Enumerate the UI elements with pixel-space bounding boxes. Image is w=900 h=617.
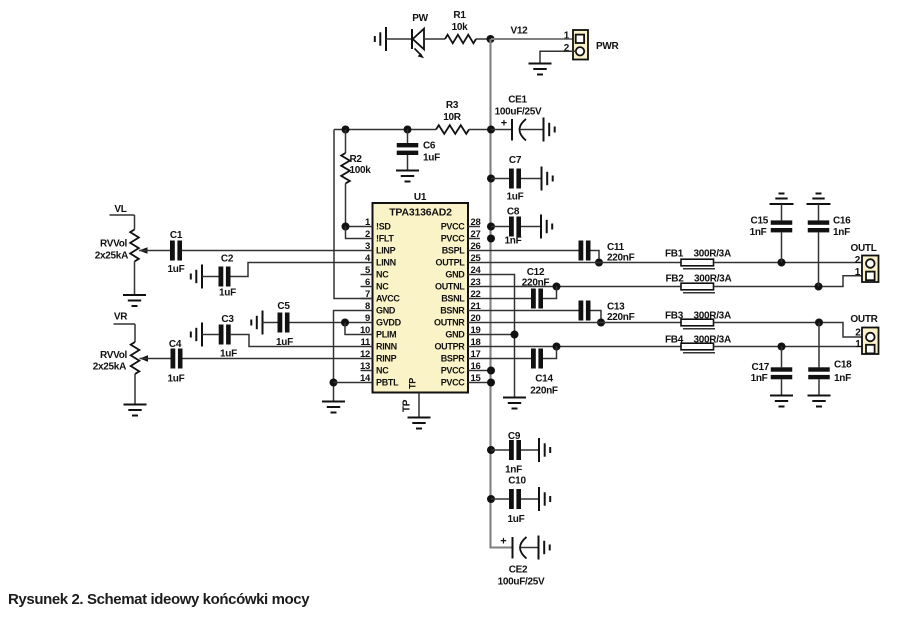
svg-text:1nF: 1nF (750, 227, 767, 238)
label R1 10k (452, 10, 469, 33)
svg-text:7: 7 (365, 289, 370, 300)
ground (C17) (770, 396, 793, 407)
LED PW (412, 29, 424, 59)
svg-text:1uF: 1uF (220, 349, 237, 360)
resistor R2 (341, 130, 350, 227)
node (487, 235, 495, 243)
svg-text:3: 3 (365, 241, 370, 252)
label C7 1uF (507, 155, 524, 203)
svg-text:12: 12 (360, 349, 370, 360)
svg-text:1nF: 1nF (833, 227, 850, 238)
svg-text:24: 24 (471, 265, 482, 276)
svg-text:FB1: FB1 (665, 249, 684, 260)
connector OUTR (862, 328, 879, 355)
svg-text:13: 13 (360, 361, 370, 372)
wire GND pin8 (334, 311, 361, 402)
wire OUTPL (480, 262, 681, 264)
svg-text:1: 1 (564, 31, 570, 42)
svg-text:2: 2 (855, 328, 861, 339)
svg-text:C4: C4 (169, 339, 182, 350)
capacitor C11 (579, 241, 600, 263)
node (487, 126, 495, 134)
svg-text:28: 28 (471, 217, 481, 228)
node (815, 283, 823, 291)
label C11 220nF (607, 242, 635, 264)
label CE1 100uF/25V (495, 95, 542, 118)
wire (140, 358, 171, 360)
svg-text:R3: R3 (446, 100, 459, 111)
node (330, 379, 338, 387)
svg-text:9: 9 (365, 313, 370, 324)
svg-text:CE2: CE2 (509, 565, 528, 576)
ferrite bead FB1 (681, 259, 715, 269)
svg-text:220nF: 220nF (530, 386, 558, 397)
svg-text:CE1: CE1 (508, 95, 527, 106)
svg-text:1nF: 1nF (505, 236, 522, 247)
svg-text:RVVol: RVVol (100, 239, 128, 250)
capacitor CE1 (491, 118, 544, 141)
svg-text:C15: C15 (751, 216, 769, 227)
svg-text:PBTL: PBTL (376, 378, 399, 388)
svg-text:C14: C14 (535, 374, 553, 385)
svg-text:BSNR: BSNR (440, 306, 465, 316)
svg-text:GND: GND (445, 270, 465, 280)
label OUTR (850, 314, 878, 350)
svg-text:C7: C7 (509, 155, 522, 166)
label TP (402, 399, 413, 412)
svg-text:1nF: 1nF (505, 465, 522, 476)
label FB1 300R/3A (665, 249, 731, 260)
label CE2 100uF/25V (498, 565, 545, 588)
capacitor CE2 (500, 536, 538, 559)
node (487, 446, 495, 454)
svg-text:10: 10 (360, 325, 370, 336)
label FB3 300R/3A (665, 311, 731, 322)
svg-text:BSNL: BSNL (441, 294, 465, 304)
svg-text:!FLT: !FLT (376, 234, 394, 244)
svg-text:OUTR: OUTR (850, 314, 878, 325)
svg-text:C5: C5 (277, 301, 290, 312)
label C6 1uF (423, 141, 440, 164)
wire PVCC pin15 (480, 382, 491, 384)
label RVVol 2x25kA (93, 350, 128, 373)
svg-text:BSPL: BSPL (442, 246, 466, 256)
svg-text:PW: PW (412, 13, 428, 24)
wire !FLT (346, 227, 361, 239)
svg-text:C8: C8 (507, 207, 520, 218)
svg-text:TP: TP (402, 399, 413, 412)
svg-text:V12: V12 (511, 26, 529, 37)
label C5 1uF (276, 301, 293, 348)
svg-text:18: 18 (471, 337, 481, 348)
capacitor C15 (771, 204, 793, 263)
svg-text:2x25kA: 2x25kA (95, 251, 128, 262)
node (511, 331, 519, 339)
svg-text:C16: C16 (833, 216, 851, 227)
ferrite bead FB3 (681, 319, 715, 329)
svg-text:23: 23 (471, 277, 481, 288)
node (487, 495, 495, 503)
pin TP wire (418, 393, 420, 418)
svg-text:2: 2 (564, 43, 570, 54)
ground (C10) (539, 487, 550, 511)
svg-text:OUTPL: OUTPL (436, 258, 466, 268)
wire LINP (182, 250, 361, 252)
svg-text:LINN: LINN (376, 258, 396, 268)
capacitor C13 (579, 301, 602, 323)
wire GND pin19 (480, 334, 515, 336)
svg-text:NC: NC (376, 282, 389, 292)
svg-text:20: 20 (471, 313, 481, 324)
potentiometer RVVol right (131, 324, 148, 405)
svg-text:FB2: FB2 (666, 274, 685, 285)
wire OUTPR out (480, 346, 681, 348)
label C14 220nF (530, 374, 558, 397)
wire PWR pin2 to ground (540, 51, 576, 63)
wire (139, 250, 170, 252)
svg-text:PLIM: PLIM (376, 330, 396, 340)
node (553, 283, 561, 291)
wire AVCC (334, 130, 373, 299)
label R3 10R (443, 100, 462, 123)
svg-text:PVCC: PVCC (441, 234, 466, 244)
label FB2 300R/3A (666, 274, 732, 285)
svg-text:C2: C2 (221, 254, 234, 265)
wire PVCC pin16 (480, 370, 491, 372)
svg-text:C10: C10 (508, 476, 526, 487)
svg-text:16: 16 (471, 361, 481, 372)
label RVVol 2x25kA (95, 239, 128, 262)
svg-text:GND: GND (376, 306, 396, 316)
ground (C7) (542, 167, 553, 191)
svg-text:1uF: 1uF (168, 374, 185, 385)
node (487, 367, 495, 375)
node (404, 126, 412, 134)
label C1 1uF (168, 230, 185, 275)
svg-text:PWR: PWR (596, 41, 620, 52)
ferrite bead FB4 (681, 343, 715, 353)
potentiometer RVVol left (130, 215, 147, 295)
capacitor C10 (491, 489, 539, 509)
svg-text:C6: C6 (423, 141, 436, 152)
wire RINP (183, 358, 361, 360)
svg-text:GND: GND (445, 330, 465, 340)
svg-text:10k: 10k (452, 22, 469, 33)
svg-text:VL: VL (114, 204, 126, 215)
svg-text:RINN: RINN (376, 342, 397, 352)
node (778, 259, 786, 267)
ground (pot VL) (123, 295, 146, 306)
ground (C3) (191, 323, 202, 347)
svg-text:TPA3136AD2: TPA3136AD2 (389, 207, 452, 219)
svg-text:OUTL: OUTL (850, 243, 876, 254)
ground (C18) (808, 396, 831, 407)
node VL (110, 204, 135, 215)
ground (C6) (396, 171, 419, 182)
capacitor C12 (531, 287, 557, 309)
svg-text:+: + (500, 536, 506, 548)
capacitor C18 (808, 323, 830, 396)
svg-text:1uF: 1uF (507, 192, 524, 203)
svg-text:1uF: 1uF (219, 288, 236, 299)
svg-text:C13: C13 (607, 302, 625, 313)
svg-text:NC: NC (376, 270, 389, 280)
capacitor C7 (491, 169, 542, 189)
svg-text:TP: TP (408, 378, 418, 389)
svg-text:15: 15 (471, 373, 482, 384)
wire (714, 323, 863, 338)
connector OUTL (862, 256, 879, 283)
svg-text:LINP: LINP (376, 246, 396, 256)
svg-text:25: 25 (471, 253, 482, 264)
svg-text:OUTNL: OUTNL (435, 282, 465, 292)
svg-text:22: 22 (471, 289, 481, 300)
svg-text:2x25kA: 2x25kA (93, 362, 126, 373)
svg-text:R1: R1 (453, 10, 466, 21)
label C16 1nF (833, 216, 851, 239)
svg-text:PVCC: PVCC (441, 366, 466, 376)
ground (C9) (539, 438, 550, 462)
label C17 1nF (751, 362, 770, 384)
svg-text:C3: C3 (221, 314, 234, 325)
wire BSNR (480, 310, 579, 312)
wire (714, 276, 867, 287)
wire (424, 38, 445, 40)
capacitor C16 (808, 204, 830, 287)
svg-text:RINP: RINP (376, 354, 397, 364)
node VR (114, 312, 136, 325)
svg-text:PVCC: PVCC (441, 222, 466, 232)
label C18 1nF (834, 360, 852, 385)
capacitor C5 (263, 313, 361, 333)
ground (pin8/14) (322, 402, 345, 413)
wire (714, 346, 867, 348)
capacitor C6 (397, 130, 419, 171)
svg-text:100k: 100k (350, 165, 372, 176)
svg-text:VR: VR (114, 312, 128, 323)
svg-text:10R: 10R (443, 112, 462, 123)
label C15 1nF (750, 216, 769, 239)
svg-text:1uF: 1uF (276, 337, 293, 348)
node V12 (487, 26, 529, 44)
wire (386, 38, 412, 40)
ground (TP) (408, 418, 431, 429)
capacitor C17 (771, 347, 793, 396)
svg-text:!SD: !SD (376, 222, 391, 232)
wire !SD (346, 226, 361, 228)
svg-text:C12: C12 (527, 267, 545, 278)
svg-text:OUTNR: OUTNR (434, 318, 465, 328)
label C9 1nF (505, 431, 522, 476)
svg-text:21: 21 (471, 301, 482, 312)
node GVDD (341, 319, 349, 327)
svg-text:2: 2 (855, 255, 861, 266)
svg-text:OUTPR: OUTPR (434, 342, 465, 352)
label PW (412, 13, 428, 24)
capacitor C2 (202, 263, 361, 287)
node (595, 259, 603, 267)
svg-text:1: 1 (855, 339, 861, 350)
svg-text:RVVol: RVVol (100, 350, 128, 361)
svg-text:BSPR: BSPR (441, 354, 466, 364)
svg-text:U1: U1 (414, 192, 427, 203)
label OUTL (850, 243, 876, 278)
wire (714, 262, 863, 264)
capacitor C8 (491, 217, 541, 237)
svg-text:100uF/25V: 100uF/25V (498, 577, 545, 588)
svg-text:Rysunek 2. Schemat ideowy końc: Rysunek 2. Schemat ideowy końcówki mocy (8, 591, 310, 608)
wire OUTNR... OUTPR (480, 322, 681, 324)
svg-text:C17: C17 (752, 362, 770, 373)
wire GND pin24 (480, 275, 515, 398)
node (342, 126, 350, 134)
ground (C15) (770, 194, 794, 205)
svg-text:220nF: 220nF (522, 278, 550, 289)
label C2 1uF (219, 254, 236, 299)
wire PBTL (334, 382, 361, 384)
node (487, 175, 495, 183)
svg-text:220nF: 220nF (607, 312, 635, 323)
svg-text:6: 6 (365, 277, 370, 288)
svg-text:300R/3A: 300R/3A (694, 335, 731, 346)
label C8 1nF (505, 207, 522, 247)
label R2 100k (350, 154, 372, 176)
svg-text:PVCC: PVCC (441, 378, 466, 388)
ground (LED return) (375, 27, 386, 51)
capacitor C9 (491, 440, 539, 460)
node (342, 223, 350, 231)
label FB4 300R/3A (665, 335, 731, 346)
label PWR (596, 41, 620, 52)
svg-text:26: 26 (471, 241, 481, 252)
connector PWR (573, 30, 588, 60)
svg-text:+: + (501, 118, 507, 130)
svg-text:300R/3A: 300R/3A (694, 274, 731, 285)
svg-text:C1: C1 (170, 230, 183, 241)
wire main V12 rail (491, 39, 513, 548)
svg-text:1nF: 1nF (834, 373, 851, 384)
wire (476, 38, 491, 40)
wire OUTNL (480, 286, 681, 288)
ferrite bead FB2 (681, 283, 715, 293)
ground (PWR) (529, 64, 552, 75)
wire BSPL (480, 250, 579, 252)
wire (334, 129, 436, 131)
svg-text:FB4: FB4 (665, 335, 684, 346)
label C3 1uF (220, 314, 237, 360)
ground (CE1) (544, 118, 555, 142)
resistor R3 (436, 125, 469, 134)
node (778, 343, 786, 351)
label PWR pins (564, 31, 570, 55)
svg-text:1uF: 1uF (168, 264, 185, 275)
svg-text:C18: C18 (834, 360, 852, 371)
node (487, 223, 495, 231)
svg-text:1: 1 (855, 267, 861, 278)
ground (pin24/19) (503, 398, 526, 409)
ground (C5) (251, 311, 262, 335)
svg-text:NC: NC (376, 366, 389, 376)
node (553, 343, 561, 351)
resistor R1 (445, 35, 476, 44)
svg-text:19: 19 (471, 325, 481, 336)
ground (pot VR) (124, 405, 147, 416)
capacitor C1 (170, 241, 182, 261)
svg-text:2: 2 (365, 229, 370, 240)
node (815, 319, 823, 327)
wire V12 to PWR (491, 38, 573, 40)
wire BSNL (480, 298, 531, 300)
wire PLIM (345, 323, 361, 335)
svg-text:8: 8 (365, 301, 370, 312)
label C10 1uF (508, 476, 527, 526)
wire BSPR (480, 358, 531, 360)
svg-text:14: 14 (360, 373, 371, 384)
svg-text:17: 17 (471, 349, 481, 360)
svg-text:GVDD: GVDD (376, 318, 402, 328)
svg-text:300R/3A: 300R/3A (694, 311, 731, 322)
ground (C16) (807, 194, 831, 205)
svg-text:1nF: 1nF (751, 373, 768, 384)
svg-text:100uF/25V: 100uF/25V (495, 107, 542, 118)
ground (C2) (191, 265, 202, 289)
svg-text:11: 11 (361, 337, 371, 348)
wire (469, 129, 491, 131)
label C13 220nF (607, 302, 635, 324)
svg-text:AVCC: AVCC (376, 294, 400, 304)
svg-text:FB3: FB3 (665, 311, 684, 322)
svg-text:C9: C9 (508, 431, 521, 442)
svg-text:1uF: 1uF (423, 153, 440, 164)
label C12 220nF (522, 267, 550, 289)
svg-text:R2: R2 (350, 154, 363, 165)
node (487, 379, 495, 387)
ground (C8) (541, 215, 552, 239)
svg-text:300R/3A: 300R/3A (694, 249, 731, 260)
svg-text:27: 27 (471, 229, 481, 240)
ground (CE2) (539, 536, 550, 560)
capacitor C4 (171, 349, 183, 369)
node (597, 319, 605, 327)
svg-text:1uF: 1uF (508, 514, 525, 525)
label C4 1uF (168, 339, 185, 385)
op-amp U1 TPA3136AD2 (360, 192, 481, 393)
svg-text:C11: C11 (607, 242, 625, 253)
capacitor C3 (202, 325, 361, 347)
capacitor C14 (531, 347, 557, 369)
